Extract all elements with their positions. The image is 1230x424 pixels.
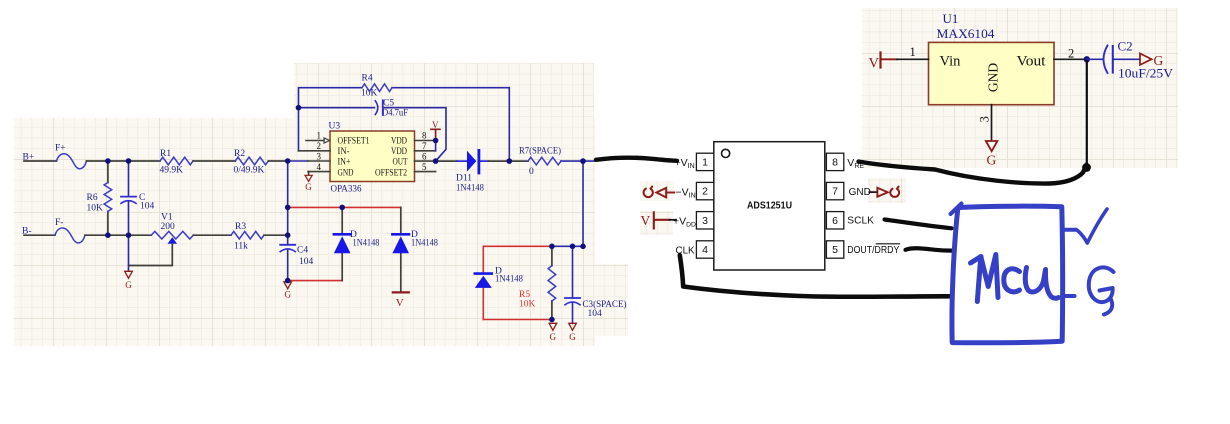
background patch gnd symbols [868,178,906,203]
svg-text:C5: C5 [383,99,394,109]
wire vertical black from junction [1086,61,1088,166]
svg-text:C4: C4 [297,246,308,256]
svg-text:3: 3 [978,116,992,122]
svg-text:R2: R2 [234,149,245,159]
svg-text:ADS1251U: ADS1251U [747,199,792,211]
MCU V pin stub and checkmark [1062,228,1076,232]
svg-text:MAX6104: MAX6104 [937,26,996,41]
svg-text:104: 104 [588,309,603,319]
svg-text:GND: GND [986,63,1001,92]
wire B+ lead [24,160,57,162]
pin 5 box [826,241,843,258]
svg-text:5: 5 [832,244,838,256]
wire pin7 to pin8 tie [435,141,437,151]
hand symbol arrow right at pin7 [877,188,887,197]
pin 3 wire down [991,105,993,141]
svg-text:U1: U1 [943,11,959,26]
ground G below pin3 [986,141,998,151]
U3 pin 3 stub [308,160,330,162]
wire D11 to R7 [489,160,529,162]
svg-text:2: 2 [1068,47,1074,61]
svg-text:104: 104 [299,257,314,267]
svg-text:V1: V1 [161,213,173,223]
svg-text:G: G [125,280,132,290]
svg-text:1: 1 [317,130,322,140]
svg-text:F-: F- [55,218,63,228]
pin 7 box [826,182,843,199]
svg-text:11k: 11k [234,242,248,252]
hand symbol G loop at pin2 [644,187,653,198]
svg-text:OPA336: OPA336 [331,185,362,195]
pin1 marker circle [722,149,730,157]
svg-text:3: 3 [702,215,708,227]
U3 pin 8 stub [415,140,436,142]
pin 6 box [826,212,843,229]
svg-text:1: 1 [910,45,916,59]
svg-text:Vout: Vout [1017,54,1046,70]
svg-text:Vin: Vin [940,54,962,70]
svg-text:F+: F+ [55,144,66,154]
svg-text:3: 3 [317,151,322,161]
svg-text:7: 7 [422,141,427,151]
svg-text:IN-: IN- [338,146,350,156]
U3 pin 6 stub (OUT) [415,160,436,162]
U3 pin 1 stub with arrow [306,140,324,142]
svg-text:10K: 10K [519,299,536,309]
wire R1-R2 [193,160,235,162]
U3 pin 2 stub [299,150,331,152]
svg-text:1N4148: 1N4148 [495,275,523,285]
power V below second diode [393,291,409,293]
junction dots opamp [296,105,586,164]
wire top rail [87,160,161,162]
background patch pin2 symbols [640,181,674,201]
pin 2 box [696,182,713,199]
svg-text:0/49.9K: 0/49.9K [234,166,265,176]
MCU hand-drawn box [952,206,1063,343]
ground G below C4 [284,282,292,289]
svg-text:U3: U3 [329,121,341,131]
svg-text:R4: R4 [362,74,373,84]
svg-text:IN+: IN+ [338,157,351,167]
wire V1 wiper to ground [129,244,173,266]
svg-text:8: 8 [832,157,838,169]
svg-text:VDD: VDD [391,146,407,156]
wire red loop top [483,245,552,247]
IC U2 ADS1251U body [714,142,825,270]
svg-text:4: 4 [702,244,708,256]
wire hand-drawn opamp output to +VIN [596,158,677,161]
background patch pin3 symbols [640,211,673,235]
wire R2-junction [268,160,287,162]
ground G below C [125,271,133,278]
svg-text:49.9K: 49.9K [160,166,184,176]
svg-text:G: G [987,153,997,168]
wire red net lower [288,280,343,282]
svg-text:10uF/25V: 10uF/25V [1118,67,1173,81]
wire red net upper [288,206,401,208]
svg-text:10K: 10K [87,204,104,214]
schematic fragment background left [14,118,595,346]
junction node at C2 [1084,56,1090,62]
pin 8 box [826,153,843,170]
svg-text:G: G [550,332,557,342]
svg-text:V: V [396,297,404,309]
schematic fragment background top-middle [294,63,594,118]
svg-text:V: V [869,56,880,72]
hand symbol arrow left at pin2 [656,188,666,197]
hand symbol G loop at pin7 [890,187,899,197]
svg-text:104: 104 [140,202,155,212]
wire B- lead [24,234,55,236]
svg-text:VDD: VDD [391,136,407,146]
U3 pin 7 stub [415,150,436,152]
wire hand-drawn VREF to C2 node [859,162,1087,184]
svg-text:G: G [569,332,576,342]
svg-text:G: G [305,182,312,192]
wire red loop bottom [483,319,552,321]
svg-text:OUT: OUT [393,157,408,167]
svg-text:200: 200 [161,222,176,232]
wire hand-drawn SCLK to MCU [885,220,952,229]
ground G arrow right of C2 [1140,53,1152,65]
svg-text:DOUT/DRDY: DOUT/DRDY [847,244,899,256]
junction dots left fragment [105,158,345,283]
MCU G pin stub and hand G [1062,294,1075,298]
svg-text:6: 6 [832,215,838,227]
svg-text:4: 4 [317,162,322,172]
U3 pin labels [338,136,408,178]
svg-text:−VIN: −VIN [676,186,696,199]
U3 pin numbers [317,130,428,172]
wire R7 to output junction [561,160,596,162]
MCU label Mcu handwritten [971,255,999,302]
svg-text:GND: GND [338,167,354,177]
schematic fragment background top-right [862,8,1178,168]
svg-text:D11: D11 [456,174,472,184]
wire OUT to D11 [436,160,457,162]
svg-text:2: 2 [317,141,322,151]
svg-text:G: G [285,290,292,300]
svg-text:C2: C2 [1118,38,1133,53]
svg-text:OFFSET1: OFFSET1 [338,136,370,146]
svg-text:R6: R6 [87,193,98,203]
svg-text:1N4148: 1N4148 [456,183,484,193]
wire red loop left verticals [482,246,484,319]
svg-text:OFFSET2: OFFSET2 [375,167,407,177]
svg-text:G: G [1154,53,1164,68]
svg-text:1N4148: 1N4148 [411,238,438,248]
wire output junction down [582,161,584,246]
junction dots redbox [549,244,586,323]
ground G below C3 [569,323,577,330]
wire center column [287,161,289,281]
svg-text:8: 8 [422,130,427,140]
wire feedback R4 net [299,88,510,161]
svg-text:D4.7uF: D4.7uF [382,109,408,119]
svg-text:V: V [432,120,439,130]
pin 3 box [696,212,713,229]
svg-text:R7(SPACE): R7(SPACE) [519,146,561,157]
svg-text:6: 6 [422,151,427,161]
wire hand-drawn DOUT to MCU [906,248,952,250]
wire R3-junction [264,234,288,236]
wire net to C3 [552,246,583,323]
wire junction to opamp IN+ [288,160,308,162]
U3 pin 4 stub [308,171,330,173]
black dash after GND label [869,191,876,193]
svg-text:2: 2 [702,186,708,198]
pin 4 box [696,241,713,258]
ground G below pin4 [308,172,310,175]
svg-text:V: V [641,213,651,228]
svg-text:1: 1 [702,157,708,169]
svg-text:0: 0 [529,167,534,177]
schematic fragment background C3 patch [595,264,628,336]
wire junction to C2 [1087,58,1103,60]
svg-text:1N4148: 1N4148 [353,238,380,248]
wire C5 net [299,108,447,161]
wire V1-R3 [193,234,231,236]
wire hand-drawn CLK loop to MCU [680,255,952,297]
U3 pin 5 stub [415,171,436,173]
svg-text:SCLK: SCLK [847,216,874,227]
svg-text:+VDD: +VDD [673,215,696,228]
svg-text:7: 7 [832,186,838,198]
wire bottom rail [85,234,151,236]
ground G below R5 [549,323,557,330]
svg-text:GND: GND [849,187,871,198]
pin 1 box [696,153,713,170]
svg-text:5: 5 [422,162,427,172]
